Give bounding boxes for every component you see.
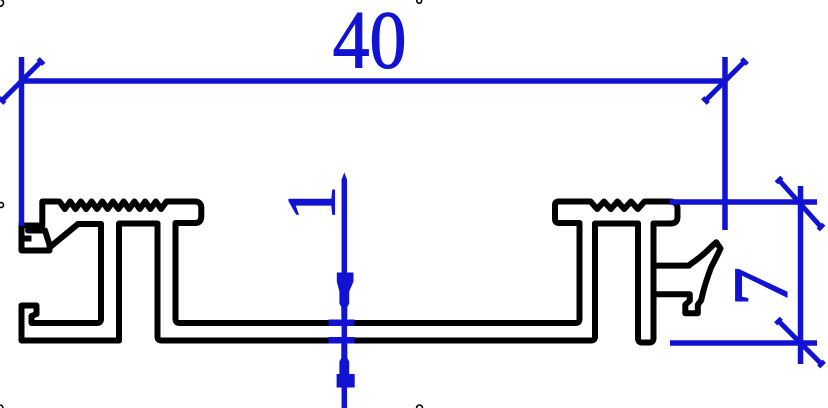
svg-text:40: 40 <box>333 0 407 86</box>
svg-text:7: 7 <box>717 267 804 306</box>
svg-text:1: 1 <box>273 186 349 221</box>
